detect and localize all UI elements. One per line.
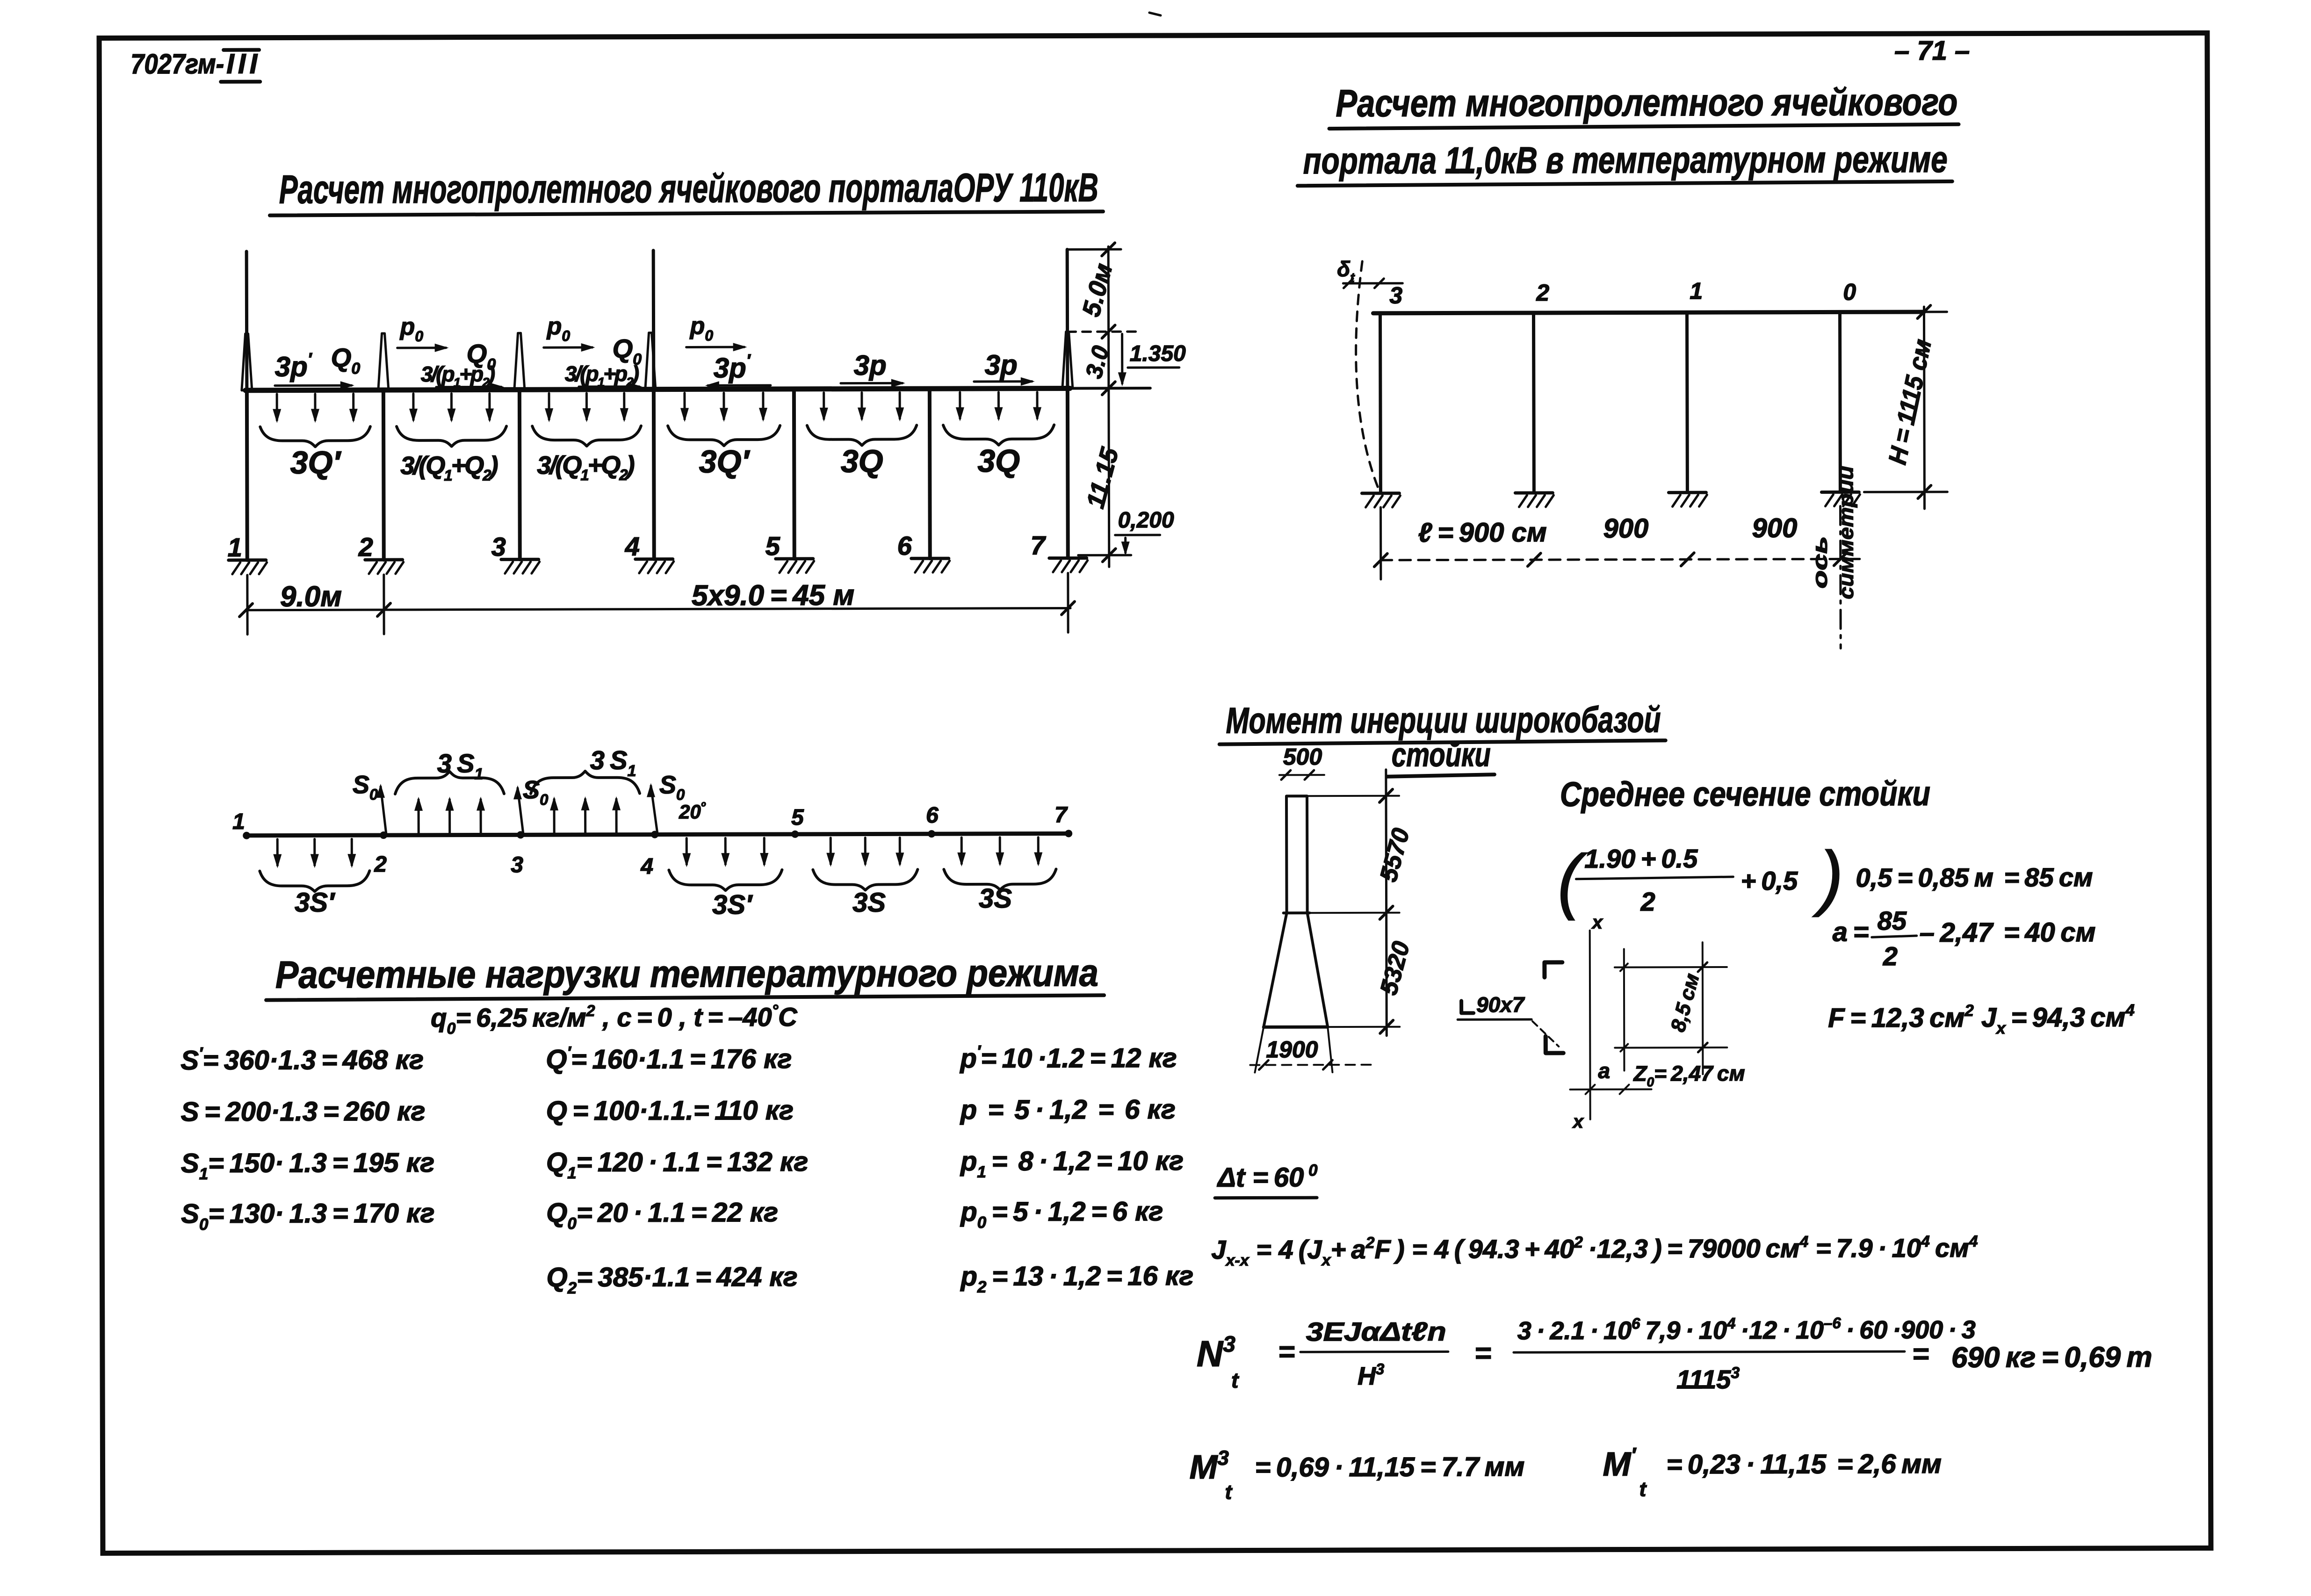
angle designation 90x7 — [1461, 1001, 1473, 1013]
load brace span 1-2 — [260, 426, 370, 447]
arrow for 3p' span 4-5 — [708, 384, 771, 387]
load brace span 2-3 — [397, 426, 506, 447]
downward load arrows (3S') — [276, 839, 279, 866]
svg-text:85: 85 — [1878, 906, 1907, 935]
svg-text:– 2,47 = 40 см: – 2,47 = 40 см — [1920, 917, 2096, 948]
tie line base — [1328, 1026, 1400, 1028]
svg-text:стойки: стойки — [1392, 736, 1491, 774]
section square bottom line — [1615, 1047, 1727, 1049]
section formula fraction bar — [1576, 877, 1733, 879]
svg-text:1.350: 1.350 — [1130, 341, 1186, 366]
svg-text:p0 = 5 · 1,2 = 6 кг: p0 = 5 · 1,2 = 6 кг — [960, 1196, 1163, 1232]
svg-text:3p: 3p — [985, 349, 1018, 381]
svg-text:2: 2 — [358, 532, 373, 562]
svg-text:3p′: 3p′ — [714, 351, 751, 383]
svg-text:3S′: 3S′ — [295, 887, 335, 917]
S0 uplift arrow at node 2 — [381, 787, 386, 835]
plan beam line node1-node7 — [246, 833, 1069, 835]
ground support at column 7 — [1049, 556, 1087, 560]
ground support at column 3 — [501, 558, 539, 561]
N formula second fraction bar — [1514, 1351, 1905, 1352]
extension line column 2 — [383, 575, 385, 634]
bottom dimension dashed line of temperature frame — [1381, 559, 1865, 560]
svg-text:4: 4 — [625, 532, 640, 561]
svg-text:5: 5 — [791, 805, 804, 830]
angle section corner mark top — [1545, 962, 1562, 977]
lightning mast on column 4 — [652, 251, 656, 390]
distributed load arrows span 3-4 — [548, 393, 550, 419]
svg-text:500: 500 — [1283, 744, 1322, 770]
svg-text:3S: 3S — [852, 887, 886, 917]
svg-text:= 0,23 · 11,15 = 2,6 мм: = 0,23 · 11,15 = 2,6 мм — [1666, 1449, 1942, 1480]
svg-text:Расчет многопролетного ячейк: Расчет многопролетного ячейкового — [1336, 81, 1957, 125]
tie line top — [1307, 795, 1399, 797]
insulator spike at column 3 — [514, 333, 525, 390]
svg-text:900: 900 — [1603, 513, 1649, 543]
svg-text:1: 1 — [232, 809, 245, 834]
load brace span 6-7 — [943, 425, 1054, 446]
ground support at column 2 — [365, 558, 403, 561]
arrow for 3p span 6-7 — [974, 380, 1032, 383]
svg-text:=: = — [1912, 1338, 1929, 1370]
svg-text:x: x — [1572, 1112, 1584, 1132]
load brace span 3-4 — [532, 426, 641, 447]
column profile: tapered base — [1264, 913, 1328, 1027]
load brace span 4-5 — [668, 426, 780, 446]
svg-text:6: 6 — [926, 803, 939, 828]
mast top tie — [1067, 248, 1121, 251]
axis of symmetry dash-dot line — [1839, 506, 1842, 648]
svg-text:5: 5 — [766, 531, 780, 561]
svg-text:Q0= 20 · 1.1 = 22 кг: Q0= 20 · 1.1 = 22 кг — [546, 1197, 778, 1233]
downward load arrows (3S) — [961, 838, 963, 864]
H top tie — [1892, 311, 1947, 313]
svg-text:ℓ = 900 см: ℓ = 900 см — [1418, 517, 1547, 548]
extension of column 3 below base — [1379, 507, 1382, 579]
temperature frame column node 1 — [1685, 312, 1689, 492]
svg-text:3: 3 — [1389, 282, 1402, 309]
arrow for p0 span 2-3 — [397, 347, 446, 349]
svg-text:1: 1 — [228, 533, 242, 562]
overbrace 3S1 — [531, 771, 640, 794]
temperature frame: cross beam — [1373, 312, 1924, 313]
spike top level dashed tie — [1068, 331, 1140, 333]
svg-text:=: = — [1474, 1337, 1491, 1369]
overbrace 3S1 — [395, 771, 504, 794]
column profile: base line — [1264, 1025, 1328, 1029]
svg-text:7: 7 — [1031, 531, 1047, 560]
insulator spike at column 2 — [378, 333, 389, 390]
svg-text:7: 7 — [1054, 802, 1068, 827]
svg-text:3 · 2.1 · 106 7,9 · 104 ·12 ·: 3 · 2.1 · 106 7,9 · 104 ·12 · 10–6 · 60 … — [1517, 1314, 1976, 1345]
svg-text:Момент инерции широкобазой: Момент инерции широкобазой — [1226, 699, 1661, 741]
S0 uplift arrow at node 3 — [518, 788, 523, 835]
ground support at column 1 — [229, 558, 266, 562]
svg-text:3S: 3S — [979, 883, 1012, 914]
lightning mast on column 7 — [1066, 249, 1069, 388]
column 1 of main frame — [245, 390, 249, 560]
lightning mast on column 1 — [245, 252, 249, 390]
svg-text:a: a — [1598, 1059, 1610, 1083]
arrow for 3(p1+p2) span 3-4 — [579, 385, 639, 388]
svg-text:Расчет многопролетного ячейк: Расчет многопролетного ячейкового портал… — [279, 165, 1098, 212]
svg-text:3p′: 3p′ — [275, 349, 313, 382]
svg-text:90х7: 90х7 — [1476, 992, 1525, 1017]
svg-text:3: 3 — [491, 532, 506, 561]
svg-text:2: 2 — [1883, 941, 1898, 971]
distributed load arrows span 2-3 — [412, 394, 414, 420]
svg-text:III: III — [226, 48, 261, 79]
distributed load arrows span 5-6 — [823, 393, 825, 419]
svg-text:6: 6 — [897, 531, 912, 560]
angle section corner mark bottom — [1545, 1036, 1563, 1053]
svg-text:F = 12,3 см2 Jx = 94,3 см4: F = 12,3 см2 Jx = 94,3 см4 — [1828, 1001, 2135, 1038]
svg-text:9.0м: 9.0м — [280, 580, 342, 613]
svg-text:690 кг = 0,69 m: 690 кг = 0,69 m — [1951, 1341, 2152, 1374]
svg-text:3Q′: 3Q′ — [699, 444, 751, 479]
svg-text:t: t — [1231, 1368, 1239, 1393]
vertical dimension line right of main frame — [1108, 246, 1109, 567]
svg-text:p = 5 · 1,2 = 6 кг: p = 5 · 1,2 = 6 кг — [960, 1094, 1176, 1125]
svg-text:3p: 3p — [854, 349, 887, 381]
dimension ticks main frame — [239, 604, 253, 617]
svg-text:– 71 –: – 71 – — [1894, 36, 1970, 66]
node dot — [380, 831, 387, 839]
detail dimension 1.350 — [1121, 334, 1123, 383]
svg-text:Δt = 60 0: Δt = 60 0 — [1217, 1161, 1318, 1193]
temperature frame column node 2 — [1532, 313, 1536, 493]
svg-text:1.90 + 0.5: 1.90 + 0.5 — [1584, 844, 1698, 874]
S0 uplift arrow at node 4 — [651, 786, 657, 835]
downward load arrows (3S') — [686, 838, 688, 864]
svg-text:3Q: 3Q — [841, 443, 883, 479]
extension line column 7 — [1067, 573, 1069, 632]
svg-text:3Q′: 3Q′ — [290, 445, 342, 480]
arrow for 3p' span 1-2 — [275, 384, 352, 387]
main portal frame: cross beam node1-node7 — [246, 388, 1070, 390]
svg-text:p1 = 8 · 1,2 = 10 кг: p1 = 8 · 1,2 = 10 кг — [960, 1146, 1184, 1181]
svg-text:0: 0 — [1843, 279, 1856, 305]
distributed load arrows span 4-5 — [683, 393, 686, 419]
ground support node 1 — [1668, 491, 1706, 494]
svg-text:симметрии: симметрии — [1834, 466, 1858, 599]
svg-text:Q = 100·1.1.= 110 кг: Q = 100·1.1.= 110 кг — [546, 1095, 794, 1126]
arrow for 3(p1+p2) span 2-3 — [436, 386, 501, 388]
x-x axis line — [1589, 931, 1591, 1119]
leader line to angle — [1532, 1021, 1559, 1047]
section square left line — [1623, 949, 1625, 1071]
node dot — [243, 832, 250, 839]
svg-text:0,5 = 0,85 м = 85 см: 0,5 = 0,85 м = 85 см — [1856, 862, 2093, 892]
node dot — [517, 831, 524, 838]
svg-text:4: 4 — [640, 854, 653, 879]
svg-text:3: 3 — [511, 852, 523, 877]
load brace span 5-6 — [807, 425, 917, 446]
underbrace — [260, 871, 369, 892]
ground support at column 5 — [776, 557, 813, 560]
bottom tie of section sketch — [1570, 1088, 1652, 1090]
distributed load arrows span 6-7 — [959, 392, 961, 419]
svg-text:p′= 10 ·1.2 = 12 кг: p′= 10 ·1.2 = 12 кг — [959, 1042, 1177, 1074]
svg-text:Расчетные нагрузки температу: Расчетные нагрузки температурного режима — [275, 952, 1098, 996]
bottom dimension line of main frame — [246, 608, 1070, 610]
svg-text:S0= 130· 1.3 = 170 кг: S0= 130· 1.3 = 170 кг — [181, 1198, 434, 1234]
section square top line — [1615, 966, 1727, 968]
arrow for 3p span 5-6 — [841, 382, 903, 384]
svg-text:3S′: 3S′ — [712, 889, 753, 920]
svg-text:Q2= 385·1.1 = 424 кг: Q2= 385·1.1 = 424 кг — [546, 1262, 797, 1297]
svg-text:S1= 150· 1.3 = 195 кг: S1= 150· 1.3 = 195 кг — [181, 1148, 434, 1183]
svg-text:Q1= 120 · 1.1 = 132 кг: Q1= 120 · 1.1 = 132 кг — [546, 1147, 809, 1182]
arrow for p0 span 4-5 — [686, 346, 744, 348]
svg-text:Q′= 160·1.1 = 176 кг: Q′= 160·1.1 = 176 кг — [546, 1043, 792, 1075]
svg-text:портала 11,0кВ в температур: портала 11,0кВ в температурном режиме — [1303, 138, 1948, 181]
arrow for p0 span 3-4 — [544, 346, 592, 348]
column 2 of main frame — [382, 390, 386, 560]
insulator spike at column 4 — [645, 333, 656, 390]
H bottom tie — [1864, 491, 1947, 493]
svg-text:S′= 360·1.3 = 468 кг: S′= 360·1.3 = 468 кг — [181, 1044, 424, 1076]
ground support at column 6 — [911, 557, 949, 560]
svg-text:3Q: 3Q — [977, 443, 1020, 479]
insulator spike at column 1 — [242, 334, 252, 390]
underbrace — [813, 869, 917, 890]
node dot — [651, 831, 658, 838]
svg-text:5х9.0 = 45 м: 5х9.0 = 45 м — [692, 579, 854, 612]
svg-text:11153: 11153 — [1676, 1364, 1740, 1394]
extension line column 1 — [246, 575, 248, 635]
svg-text:900: 900 — [1752, 513, 1798, 543]
temperature frame column node 3 — [1379, 313, 1382, 493]
node dot — [1065, 830, 1072, 837]
node dot — [928, 830, 935, 838]
svg-text:0,200: 0,200 — [1118, 508, 1175, 533]
H dimension line — [1924, 307, 1924, 509]
svg-text:=: = — [1278, 1336, 1295, 1368]
column 4 of main frame — [652, 390, 656, 559]
svg-text:t: t — [1639, 1478, 1647, 1501]
svg-text:7027гм-: 7027гм- — [130, 48, 224, 79]
svg-text:2: 2 — [374, 852, 387, 877]
column 7 of main frame — [1066, 388, 1070, 558]
svg-text:2: 2 — [1640, 887, 1655, 916]
column 3 of main frame — [518, 390, 522, 559]
base level tie at column 7 — [1078, 554, 1131, 556]
column profile: mid joint line — [1284, 911, 1310, 914]
top edge registration mark — [1149, 13, 1161, 15]
svg-text:p2 = 13 · 1,2 = 16 кг: p2 = 13 · 1,2 = 16 кг — [960, 1261, 1193, 1296]
N formula first fraction bar — [1300, 1350, 1448, 1353]
node dot — [791, 830, 799, 838]
column profile: top shaft — [1286, 796, 1307, 913]
section vertical dimension 85 — [1702, 942, 1704, 1074]
svg-text:x: x — [1591, 912, 1603, 933]
svg-text:a =: a = — [1833, 917, 1869, 947]
ground support node 0 — [1821, 491, 1859, 494]
ground support at column 4 — [636, 557, 673, 561]
ground support node 2 — [1515, 491, 1553, 494]
svg-text:Среднее сечение стойки: Среднее сечение стойки — [1560, 774, 1930, 814]
underbrace — [944, 869, 1056, 890]
distributed load arrows span 1-2 — [276, 394, 278, 420]
displaced top tie line — [1343, 282, 1402, 284]
svg-text:1900: 1900 — [1266, 1036, 1318, 1062]
svg-text:ось: ось — [1809, 536, 1832, 588]
svg-text:2: 2 — [1536, 280, 1549, 306]
svg-text:t: t — [1225, 1481, 1233, 1504]
profile vertical dimension line — [1386, 770, 1387, 1036]
svg-text:= 0,69 · 11,15 = 7.7 мм: = 0,69 · 11,15 = 7.7 мм — [1255, 1452, 1524, 1482]
uplift load arrows (3S1) — [553, 799, 556, 835]
svg-text:1: 1 — [1690, 278, 1703, 304]
ground support node 3 — [1362, 491, 1399, 495]
insulator spike at column 7 — [1062, 332, 1073, 388]
beam level tie line to dimension — [1070, 387, 1150, 390]
column 6 of main frame — [928, 389, 932, 558]
temperature frame column node 0 — [1838, 312, 1842, 492]
column 5 of main frame — [792, 389, 796, 559]
underbrace — [669, 870, 782, 891]
svg-text:+ 0,5: + 0,5 — [1740, 866, 1798, 895]
uplift load arrows (3S1) — [418, 800, 420, 835]
svg-text:3EJαΔtℓn: 3EJαΔtℓn — [1306, 1316, 1446, 1346]
svg-text:S = 200·1.3 = 260 кг: S = 200·1.3 = 260 кг — [181, 1096, 426, 1127]
downward load arrows (3S) — [830, 838, 832, 864]
deflection dashed curve at column 3 — [1356, 261, 1379, 490]
tie line middle — [1310, 912, 1400, 914]
